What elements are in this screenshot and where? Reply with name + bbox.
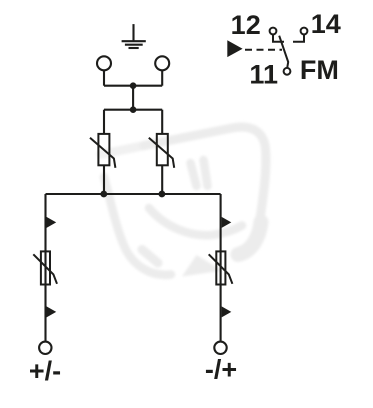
junction bus right: [159, 191, 166, 198]
ground: [122, 24, 146, 48]
wire to right middle varistor: [161, 110, 163, 134]
svg-text:11: 11: [249, 60, 278, 90]
wire left middle varistor to bus: [103, 165, 105, 194]
wire left terminal stem: [103, 70, 105, 85]
wire varistor pair top rail: [104, 109, 162, 111]
wire left branch vertical: [44, 194, 46, 341]
thermal disconnect flag lower left: [47, 306, 57, 317]
wire right terminal stem: [161, 70, 163, 85]
junction at varistor pair split: [130, 106, 137, 113]
terminal circle right (ground terminal): [155, 56, 169, 70]
terminal circle bottom right: [214, 342, 226, 354]
thermal disconnect flag upper left: [47, 217, 57, 228]
svg-text:-/+: -/+: [205, 355, 237, 385]
contact circle pin 11: [284, 68, 291, 75]
contact circle pin 12: [270, 28, 277, 35]
varistor right middle: [149, 134, 174, 168]
junction bus left: [100, 191, 107, 198]
thermal disconnect flag lower right: [222, 306, 232, 317]
actuator triangle: [227, 40, 242, 57]
wire center drop: [132, 86, 134, 110]
varistor left branch: [33, 251, 57, 284]
wire terminal tie bar: [104, 85, 162, 87]
junction on tie bar: [130, 82, 137, 89]
terminal circle bottom left: [39, 342, 51, 354]
contact hook pin 14: [293, 34, 304, 41]
varistor right branch: [209, 251, 233, 284]
svg-text:+/-: +/-: [29, 356, 61, 386]
contact circle pin 14: [301, 28, 308, 35]
svg-text:FM: FM: [300, 55, 339, 85]
svg-text:12: 12: [231, 10, 261, 40]
thermal disconnect flag upper right: [222, 217, 232, 228]
svg-text:14: 14: [311, 9, 341, 39]
actuator dashed link: [245, 49, 282, 51]
wire to left middle varistor: [103, 110, 105, 134]
wire horizontal bus: [46, 193, 221, 195]
wire right branch vertical: [220, 194, 222, 341]
varistor left middle: [90, 134, 115, 168]
contact hook pin 12: [273, 34, 284, 41]
contact lever: [279, 36, 288, 68]
wire right middle varistor to bus: [161, 165, 163, 194]
terminal circle left (ground terminal): [97, 56, 111, 70]
